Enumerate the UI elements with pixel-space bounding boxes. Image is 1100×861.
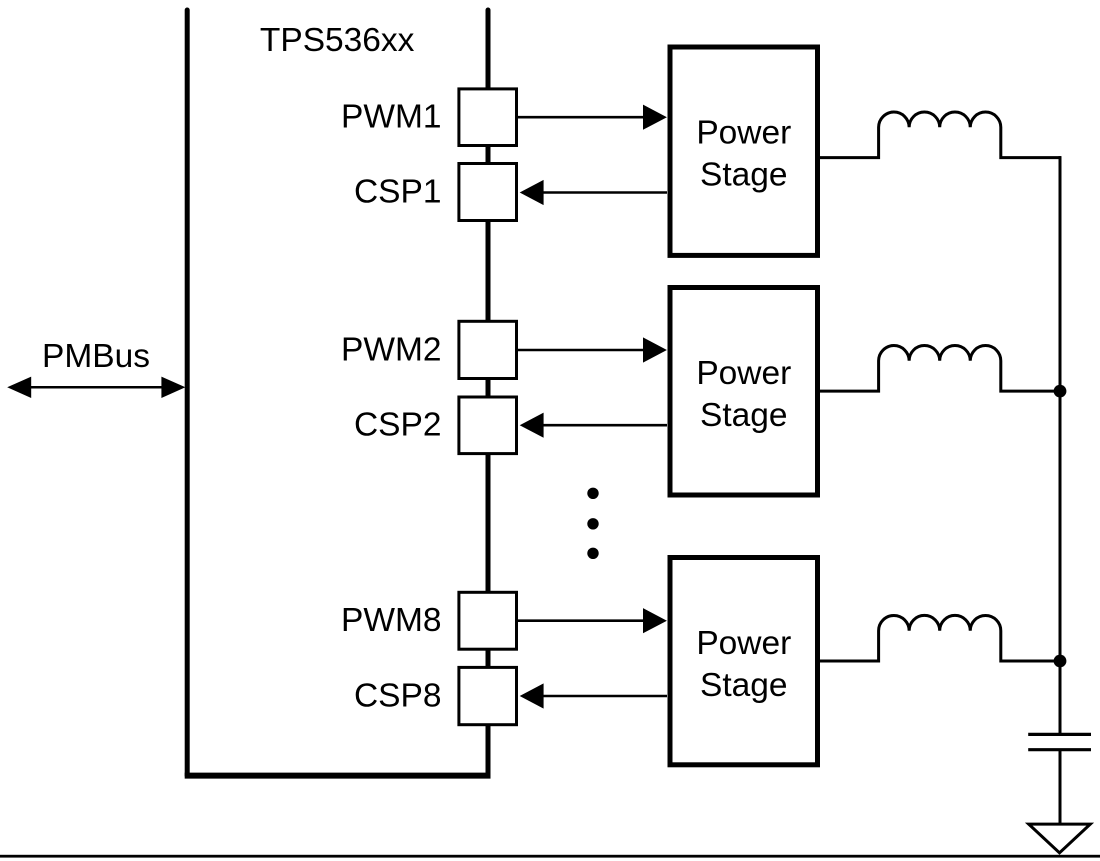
junction node at L3 output — [1054, 655, 1067, 668]
svg-text:CSP2: CSP2 — [354, 407, 442, 444]
chip TPS536xx bottom boundary — [185, 773, 491, 779]
inductor L2 — [820, 346, 1060, 392]
power stage block 2 — [670, 288, 818, 496]
svg-text:TPS536xx: TPS536xx — [260, 22, 415, 59]
wire: PWM1 to power stage (arrow) — [518, 105, 667, 130]
svg-text:PMBus: PMBus — [42, 338, 150, 375]
wire: pin bus vertical line — [486, 10, 491, 776]
svg-text:Power: Power — [696, 115, 791, 152]
pin PWM1 — [459, 89, 517, 146]
svg-text:PWM2: PWM2 — [341, 331, 442, 368]
pin CSP8 — [459, 667, 517, 724]
svg-text:CSP8: CSP8 — [354, 677, 442, 714]
svg-text:Stage: Stage — [700, 667, 788, 704]
ground — [1029, 824, 1091, 853]
wire: capacitor to ground — [1059, 750, 1062, 824]
pin PWM8 — [459, 592, 517, 649]
pin CSP1 — [459, 164, 517, 221]
power stage block 1 — [670, 47, 818, 255]
svg-text:Power: Power — [696, 625, 791, 662]
svg-text:Stage: Stage — [700, 157, 788, 194]
pin CSP2 — [459, 397, 517, 454]
svg-text:Power: Power — [696, 355, 791, 392]
wire: output bus vertical — [1059, 156, 1062, 734]
wire: PMBus bidirectional arrow — [7, 377, 185, 398]
pin PWM2 — [459, 321, 517, 378]
svg-text:CSP1: CSP1 — [354, 174, 442, 211]
wire: PWM2 to power stage (arrow) — [518, 337, 667, 362]
wire: CSP2 from power stage (arrow) — [520, 413, 667, 438]
svg-text:PWM8: PWM8 — [341, 602, 442, 639]
capacitor C (output) — [1028, 734, 1091, 749]
power stage block 3 — [670, 558, 818, 765]
wire: CSP8 from power stage (arrow) — [520, 683, 667, 708]
inductor L3 — [820, 615, 1060, 661]
chip TPS536xx left boundary — [185, 10, 190, 776]
svg-text:Stage: Stage — [700, 397, 788, 434]
ellipsis dots — [587, 488, 598, 559]
junction node at L2 output — [1054, 385, 1067, 398]
svg-text:PWM1: PWM1 — [341, 99, 442, 136]
wire: PWM8 to power stage (arrow) — [518, 608, 667, 633]
wire: CSP1 from power stage (arrow) — [520, 180, 667, 205]
inductor L1 — [820, 112, 1061, 158]
